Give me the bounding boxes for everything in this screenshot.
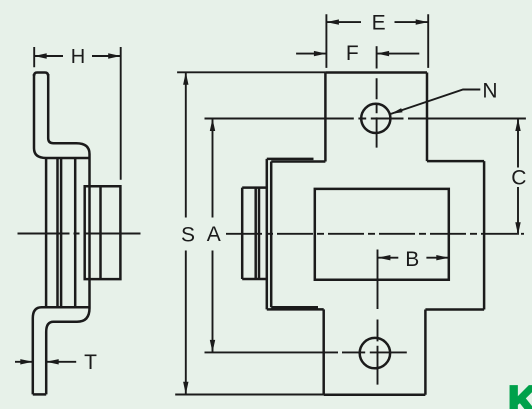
arrowhead S top — [183, 72, 188, 85]
svg-text:S: S — [181, 224, 195, 247]
right view: left shoulder lower line — [271, 160, 325, 163]
svg-text:E: E — [372, 12, 386, 35]
left view: hub line 1 — [45, 158, 48, 307]
arrowhead E right — [416, 19, 429, 24]
svg-text:C: C — [511, 167, 526, 190]
left view: bearing boss rectangle — [85, 186, 121, 279]
leader line N — [391, 90, 481, 115]
arrowhead A bottom — [210, 340, 215, 353]
right view: hub inner line 2 — [258, 188, 261, 279]
svg-text:B: B — [405, 248, 419, 271]
left view: hub line 2 — [56, 158, 59, 307]
right view: plate left outer edge — [266, 159, 269, 310]
left view: bearing boss inner line — [99, 186, 102, 279]
right view: hub inner line 1 — [254, 188, 257, 279]
svg-text:F: F — [346, 42, 359, 65]
dimension S extension lines — [175, 72, 325, 394]
dimension E lines — [326, 21, 428, 23]
right view: bottom right shoulder — [425, 308, 484, 311]
arrowhead C top — [515, 119, 520, 132]
arrowhead N leader — [391, 108, 403, 114]
arrowhead B left — [378, 255, 391, 260]
right view: bottom tab right edge — [424, 310, 427, 395]
svg-text:H: H — [71, 46, 85, 68]
dimension H lines — [34, 55, 121, 57]
right view: bottom left shoulder outer — [267, 308, 324, 311]
centerline/ext: top hole horizontal (A ext + C ext) — [205, 118, 526, 120]
right view: top bolt hole — [361, 104, 390, 133]
right view: hub protrusion bottom edge — [242, 278, 267, 281]
dimension T lines — [15, 361, 76, 363]
right view: plate left inner edge — [270, 162, 273, 308]
arrowhead T right — [46, 359, 59, 364]
dimension C lines — [517, 119, 519, 235]
arrowhead T left — [20, 359, 33, 364]
right view: left shoulder upper line — [267, 158, 314, 161]
centerline: left view horizontal — [18, 233, 141, 235]
centerline: right view main horizontal — [226, 233, 524, 235]
centerline/ext: bottom hole horizontal (A ext) — [205, 351, 407, 353]
left view: bottom flange bottom edge — [33, 393, 46, 396]
centerline: vertical through plate (F ext) — [376, 46, 378, 68]
arrowhead H left — [34, 53, 47, 58]
right view: hub protrusion top edge — [242, 186, 267, 189]
right view: right shoulder — [427, 160, 484, 163]
arrowhead H right — [108, 53, 121, 58]
arrowhead E left — [326, 19, 339, 24]
right view: bottom tab left edge — [322, 309, 325, 394]
centerline: top hole vertical — [376, 78, 378, 147]
arrowhead A top — [210, 119, 215, 132]
right view: central bearing rectangle — [315, 189, 449, 280]
right view: hub protrusion left edge — [241, 188, 244, 279]
arrowhead B right — [436, 255, 449, 260]
right view: plate right edge — [483, 161, 486, 309]
left view: inner contour (flange right, web top, plate right) — [46, 74, 89, 394]
dimension E extension lines — [326, 14, 428, 68]
dimension S lines — [185, 72, 187, 394]
right view: bottom bolt hole — [360, 338, 390, 368]
right view: top tab top edge — [325, 71, 427, 74]
left view: hub line 3 — [60, 158, 63, 307]
right view: bottom left shoulder inner — [271, 306, 318, 309]
centerline: vertical lower (B ext + bottom hole) — [377, 250, 379, 385]
arrowhead S bottom — [183, 382, 188, 395]
arrowhead C bottom — [515, 222, 520, 235]
right view: top tab left edge — [324, 73, 327, 162]
left view: bottom web top surface and outer bottom bend — [33, 307, 90, 394]
dimension F lines — [296, 53, 419, 55]
dimension B lines — [378, 257, 449, 259]
arrowhead F left — [314, 51, 327, 56]
right view: top tab right edge — [426, 73, 429, 162]
svg-text:A: A — [207, 223, 221, 246]
svg-text:N: N — [482, 79, 497, 102]
dimension A lines — [212, 119, 214, 353]
dimension H extension lines — [34, 47, 121, 180]
left view: top flange cap — [34, 73, 48, 77]
left view: outer contour top bend — [34, 74, 90, 158]
left view: plate left surface — [74, 158, 77, 307]
right view: bottom tab bottom edge — [324, 394, 426, 397]
svg-text:T: T — [84, 351, 97, 374]
svg-text:K: K — [508, 378, 532, 409]
arrowhead F right — [377, 51, 390, 56]
